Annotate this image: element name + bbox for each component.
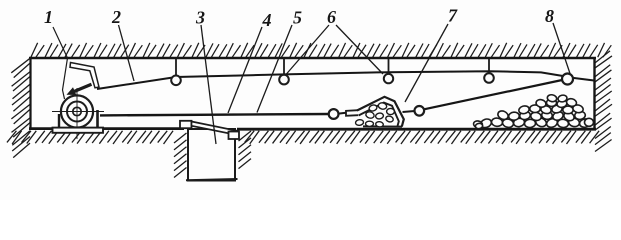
leader 3 [201,25,216,144]
right wall hatching [595,51,612,152]
rocks in scraper [355,102,394,127]
connector short line [339,112,347,115]
scraper to right connector line [403,111,415,112]
lid plate [192,122,239,136]
winch stand right [96,110,99,128]
rope hanger stem 2 [283,59,285,75]
ceiling line [29,57,596,60]
svg-text:2: 2 [111,7,121,27]
winch stand left [58,114,60,128]
rope connector ring right [415,106,425,116]
right wall line [593,57,595,130]
winch drum outer [61,95,93,127]
left wall line [29,57,31,130]
rope connector ring left [329,109,339,119]
scraper link [346,110,358,116]
rope hanger ring 4 [484,73,494,83]
floor line right segment [237,128,596,131]
leader 4 [228,27,262,113]
rope hanger stem 1 [175,59,177,76]
leader 8 [553,23,570,74]
scraper body inner [359,103,399,126]
scraper body outer [357,97,404,127]
return rope from scraper to tail pulley [424,80,565,110]
winch arm (bent bar) [70,63,99,88]
leader 6 right branch [336,25,383,74]
leader 1 [53,27,68,99]
top rope [97,71,563,89]
winch drum hub [73,107,81,115]
svg-text:5: 5 [293,8,302,28]
rope hanger stem 3 [388,59,390,74]
tail pulley [562,74,573,85]
floor hatching [7,131,599,144]
svg-text:7: 7 [448,6,458,26]
pit hatching right [239,131,252,169]
leader 2 [119,25,135,81]
tail pulley anchor to wall [570,78,594,81]
svg-text:4: 4 [262,10,272,30]
svg-text:1: 1 [44,7,53,27]
svg-text:8: 8 [545,6,554,26]
rope hanger ring 1 [171,76,181,86]
floor line left segment [29,127,184,130]
drum crosshair horizontal [52,111,104,113]
winch drum mid [67,102,87,122]
rock pile [473,94,594,129]
svg-text:6: 6 [327,7,336,27]
left wall hatching [11,58,30,157]
svg-text:3: 3 [195,8,205,28]
leader 7 [405,24,448,102]
bottom rope winch to connector [100,114,329,115]
lid right block [229,132,240,140]
ceiling hatching [31,43,611,57]
scraper bottom edge [363,125,402,127]
measuring box in pit [188,129,235,181]
leader 6 left branch [286,25,329,75]
rope guide fat arrow [67,83,93,95]
drum crosshair vertical [76,88,78,139]
box bottom edge [186,179,238,180]
lid left block [180,121,192,128]
pit hatching left [174,133,187,178]
leader 5 [257,25,292,113]
rope hanger ring 2 [279,75,289,85]
rope hanger stem 4 [488,59,490,74]
rope hanger ring 3 [384,74,393,83]
winch base plate [53,128,104,133]
